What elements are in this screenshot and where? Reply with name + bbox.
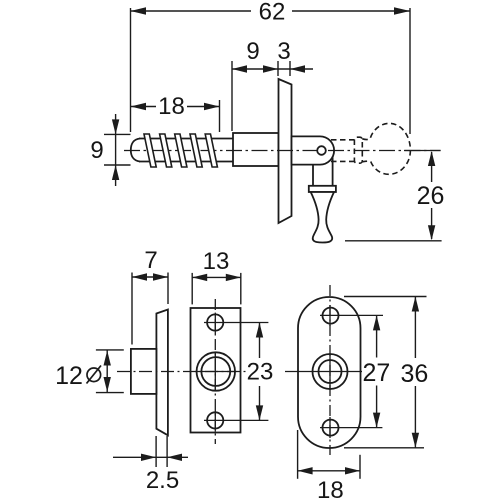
- svg-text:7: 7: [144, 247, 157, 274]
- dimension 23 arrow up: [256, 323, 263, 338]
- dimension 13 extension right: [240, 273, 242, 305]
- dimension 36 arrow down: [412, 433, 419, 448]
- dimension 62 arrow right: [394, 7, 410, 14]
- oval vertical centerline: [329, 285, 331, 455]
- oval vertical solid top hole: [329, 305, 331, 326]
- dimension 2.5 arrow right: [141, 454, 156, 461]
- handle stem right line: [332, 157, 334, 186]
- svg-text:23: 23: [247, 359, 274, 386]
- dimension 62 arrow left: [131, 7, 147, 14]
- oval vertical solid boss: [329, 354, 331, 390]
- screw nose: [131, 139, 140, 162]
- svg-text:9: 9: [90, 137, 103, 164]
- svg-text:2.5: 2.5: [146, 467, 179, 494]
- front plate vertical solid boss: [214, 352, 216, 391]
- axis centerline dash-dot: [124, 150, 441, 152]
- dimension 12 line: [106, 350, 108, 392]
- screw body top line: [139, 138, 233, 140]
- front top screw hole: [207, 314, 223, 330]
- dimension 2.5 tick left: [155, 436, 157, 467]
- svg-text:62: 62: [259, 0, 286, 26]
- dimension 12 arrow up: [104, 351, 111, 366]
- dimension 12 tick top: [96, 349, 124, 351]
- dimension 2.5 line: [113, 456, 188, 458]
- dashed knob: [362, 123, 410, 174]
- oval plate: [298, 297, 361, 448]
- oval boss outer circle: [313, 354, 348, 389]
- dashed stem top line: [331, 139, 354, 141]
- oval bottom screw hole: [323, 420, 339, 436]
- oval top screw hole: [323, 308, 339, 324]
- oval vertical solid bottom hole: [329, 417, 331, 438]
- dimension 9-3 extension tick A: [231, 61, 233, 131]
- dimension 3 arrow: [290, 65, 305, 72]
- dimension 9 left arrow up: [112, 165, 119, 180]
- dashed collar: [354, 137, 362, 163]
- bolt cylinder boss: [131, 349, 157, 394]
- dimension 13 extension left: [191, 273, 193, 305]
- front plate vertical tick top hole: [214, 313, 216, 334]
- dimension 9-3 extension tick B: [277, 61, 279, 76]
- front boss inner circle: [201, 357, 230, 386]
- thread band 2: [160, 134, 172, 167]
- dimension 13 line: [192, 276, 241, 278]
- diameter symbol: [87, 366, 102, 384]
- dimension 9 arrow left: [232, 65, 247, 72]
- svg-text:18: 18: [158, 93, 185, 120]
- dimension 18 arrow right: [204, 103, 220, 110]
- dimension 13 arrow left: [192, 274, 207, 281]
- dimension 18 arrow left: [131, 103, 147, 110]
- dimension 27 line: [376, 315, 378, 427]
- front top hole horizontal tick: [204, 322, 268, 324]
- dimension 9-3 line: [232, 68, 313, 70]
- front boss outer circle: [197, 352, 235, 390]
- dimension 27 arrow down: [373, 413, 380, 428]
- dimension 7 extension right: [167, 273, 169, 305]
- side plate: [156, 310, 168, 436]
- dimension 36 arrow up: [412, 297, 419, 312]
- dimension 36 bottom extension: [344, 447, 424, 449]
- dimension 26 line: [431, 152, 433, 239]
- front bottom screw hole: [207, 412, 223, 428]
- horizontal centerline bottom left: [117, 371, 246, 373]
- dimension 36 line: [414, 297, 416, 448]
- dimension 7 arrow left: [132, 273, 147, 280]
- dimension 18 extension line right: [219, 100, 221, 132]
- dimension 23 line: [259, 323, 261, 421]
- dimension 7 arrow right: [153, 273, 168, 280]
- dimension 18 line: [131, 106, 220, 108]
- dimension 18 oval line: [298, 470, 360, 472]
- dimension 18 oval tick left: [297, 430, 299, 479]
- svg-text:3: 3: [277, 38, 290, 65]
- dimension 36 top extension: [344, 296, 427, 298]
- dimension 2.5 arrow left: [167, 454, 182, 461]
- svg-text:26: 26: [417, 182, 445, 210]
- thread band 1: [144, 134, 156, 167]
- axis centerline solid at 26 extension: [404, 150, 441, 152]
- svg-text:36: 36: [400, 360, 428, 388]
- dimension 9 left arrow down: [112, 119, 119, 134]
- dimension 7 extension left: [131, 273, 133, 345]
- dimension 13 arrow right: [226, 274, 241, 281]
- dimension 18 oval tick right: [359, 455, 361, 479]
- oval top hole horizontal tick: [320, 314, 383, 316]
- hinge block: [292, 136, 335, 164]
- thread band 4: [190, 134, 202, 167]
- svg-text:9: 9: [246, 38, 259, 65]
- dimension 9 left tick top: [104, 133, 131, 135]
- dimension 12 arrow down: [104, 377, 111, 392]
- dimension 9 left tick bottom: [104, 164, 131, 166]
- front plate vertical tick bottom hole: [214, 410, 216, 432]
- dimension 18 oval arrow left: [298, 467, 313, 474]
- oval boss inner circle: [319, 360, 342, 383]
- pivot circle: [317, 146, 326, 155]
- svg-text:12: 12: [55, 362, 83, 390]
- dimension 23 arrow down: [256, 405, 263, 420]
- screw shank large: [233, 133, 279, 166]
- dimension 7 line: [132, 276, 168, 278]
- dimension 62 line: [131, 10, 411, 12]
- dimension 62 extension line right: [409, 8, 411, 134]
- front plate: [191, 308, 241, 433]
- dimension 27 arrow up: [373, 315, 380, 330]
- oval boss horizontal centerline: [285, 371, 362, 373]
- dimension 26 arrow up: [428, 151, 435, 166]
- thread band 5: [205, 134, 217, 167]
- screw body bottom line: [139, 161, 233, 163]
- dimension 12 tick bottom: [96, 392, 124, 394]
- handle stem left line: [312, 165, 314, 186]
- front bottom hole horizontal tick: [204, 419, 268, 421]
- svg-text:18: 18: [317, 477, 344, 500]
- dimension 26 bottom extension: [345, 240, 442, 242]
- dimension 26 arrow down: [428, 225, 435, 240]
- plate edge view: [279, 79, 292, 223]
- svg-text:27: 27: [362, 359, 390, 387]
- dimension 9 left line: [115, 114, 117, 186]
- dimension 9 arrow right: [263, 65, 278, 72]
- boss horizontal solid segment: [195, 371, 237, 373]
- handle grip: [311, 192, 334, 243]
- handle collar: [309, 186, 336, 192]
- front plate vertical centerline: [214, 299, 216, 444]
- dimension 18 oval arrow right: [345, 467, 360, 474]
- dashed stem bottom line: [331, 160, 354, 162]
- oval bottom hole horizontal tick: [320, 427, 382, 429]
- dimension 62 extension line left: [130, 8, 132, 132]
- svg-text:13: 13: [203, 248, 230, 275]
- thread band 3: [175, 134, 187, 167]
- dimension 2.5 tick right: [166, 436, 168, 467]
- dimension 9-3 extension tick C: [289, 61, 291, 76]
